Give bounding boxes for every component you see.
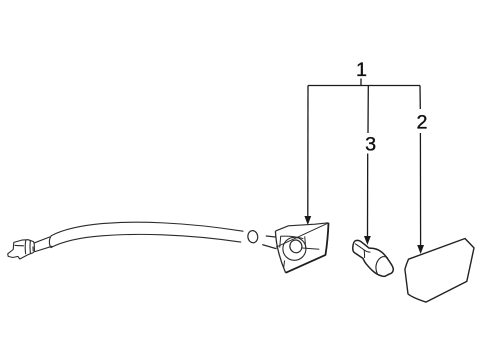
socket lead stubs <box>263 236 276 249</box>
housing interior detail lines <box>280 236 320 267</box>
connector plug at wire end <box>8 240 35 259</box>
callout bracket for 1 <box>308 79 420 86</box>
housing fold line <box>276 223 328 247</box>
bulb <box>353 240 394 276</box>
arrowhead 1 <box>304 216 311 225</box>
svg-text:1: 1 <box>356 59 367 81</box>
wire harness neck lines <box>35 237 52 252</box>
lens <box>405 239 474 303</box>
housing socket inner ring <box>288 238 304 254</box>
leader line 3 <box>367 86 370 237</box>
lamp housing outline <box>275 223 328 273</box>
svg-text:3: 3 <box>365 134 376 156</box>
arrowhead 2 <box>417 245 424 254</box>
leader line 1 <box>307 86 309 217</box>
grommet O-ring <box>247 230 258 243</box>
housing socket outer circle <box>283 237 306 260</box>
svg-text:2: 2 <box>417 112 428 134</box>
arrowhead 3 <box>364 236 371 245</box>
leader line 2 <box>419 86 422 246</box>
wire harness tube <box>49 222 243 247</box>
